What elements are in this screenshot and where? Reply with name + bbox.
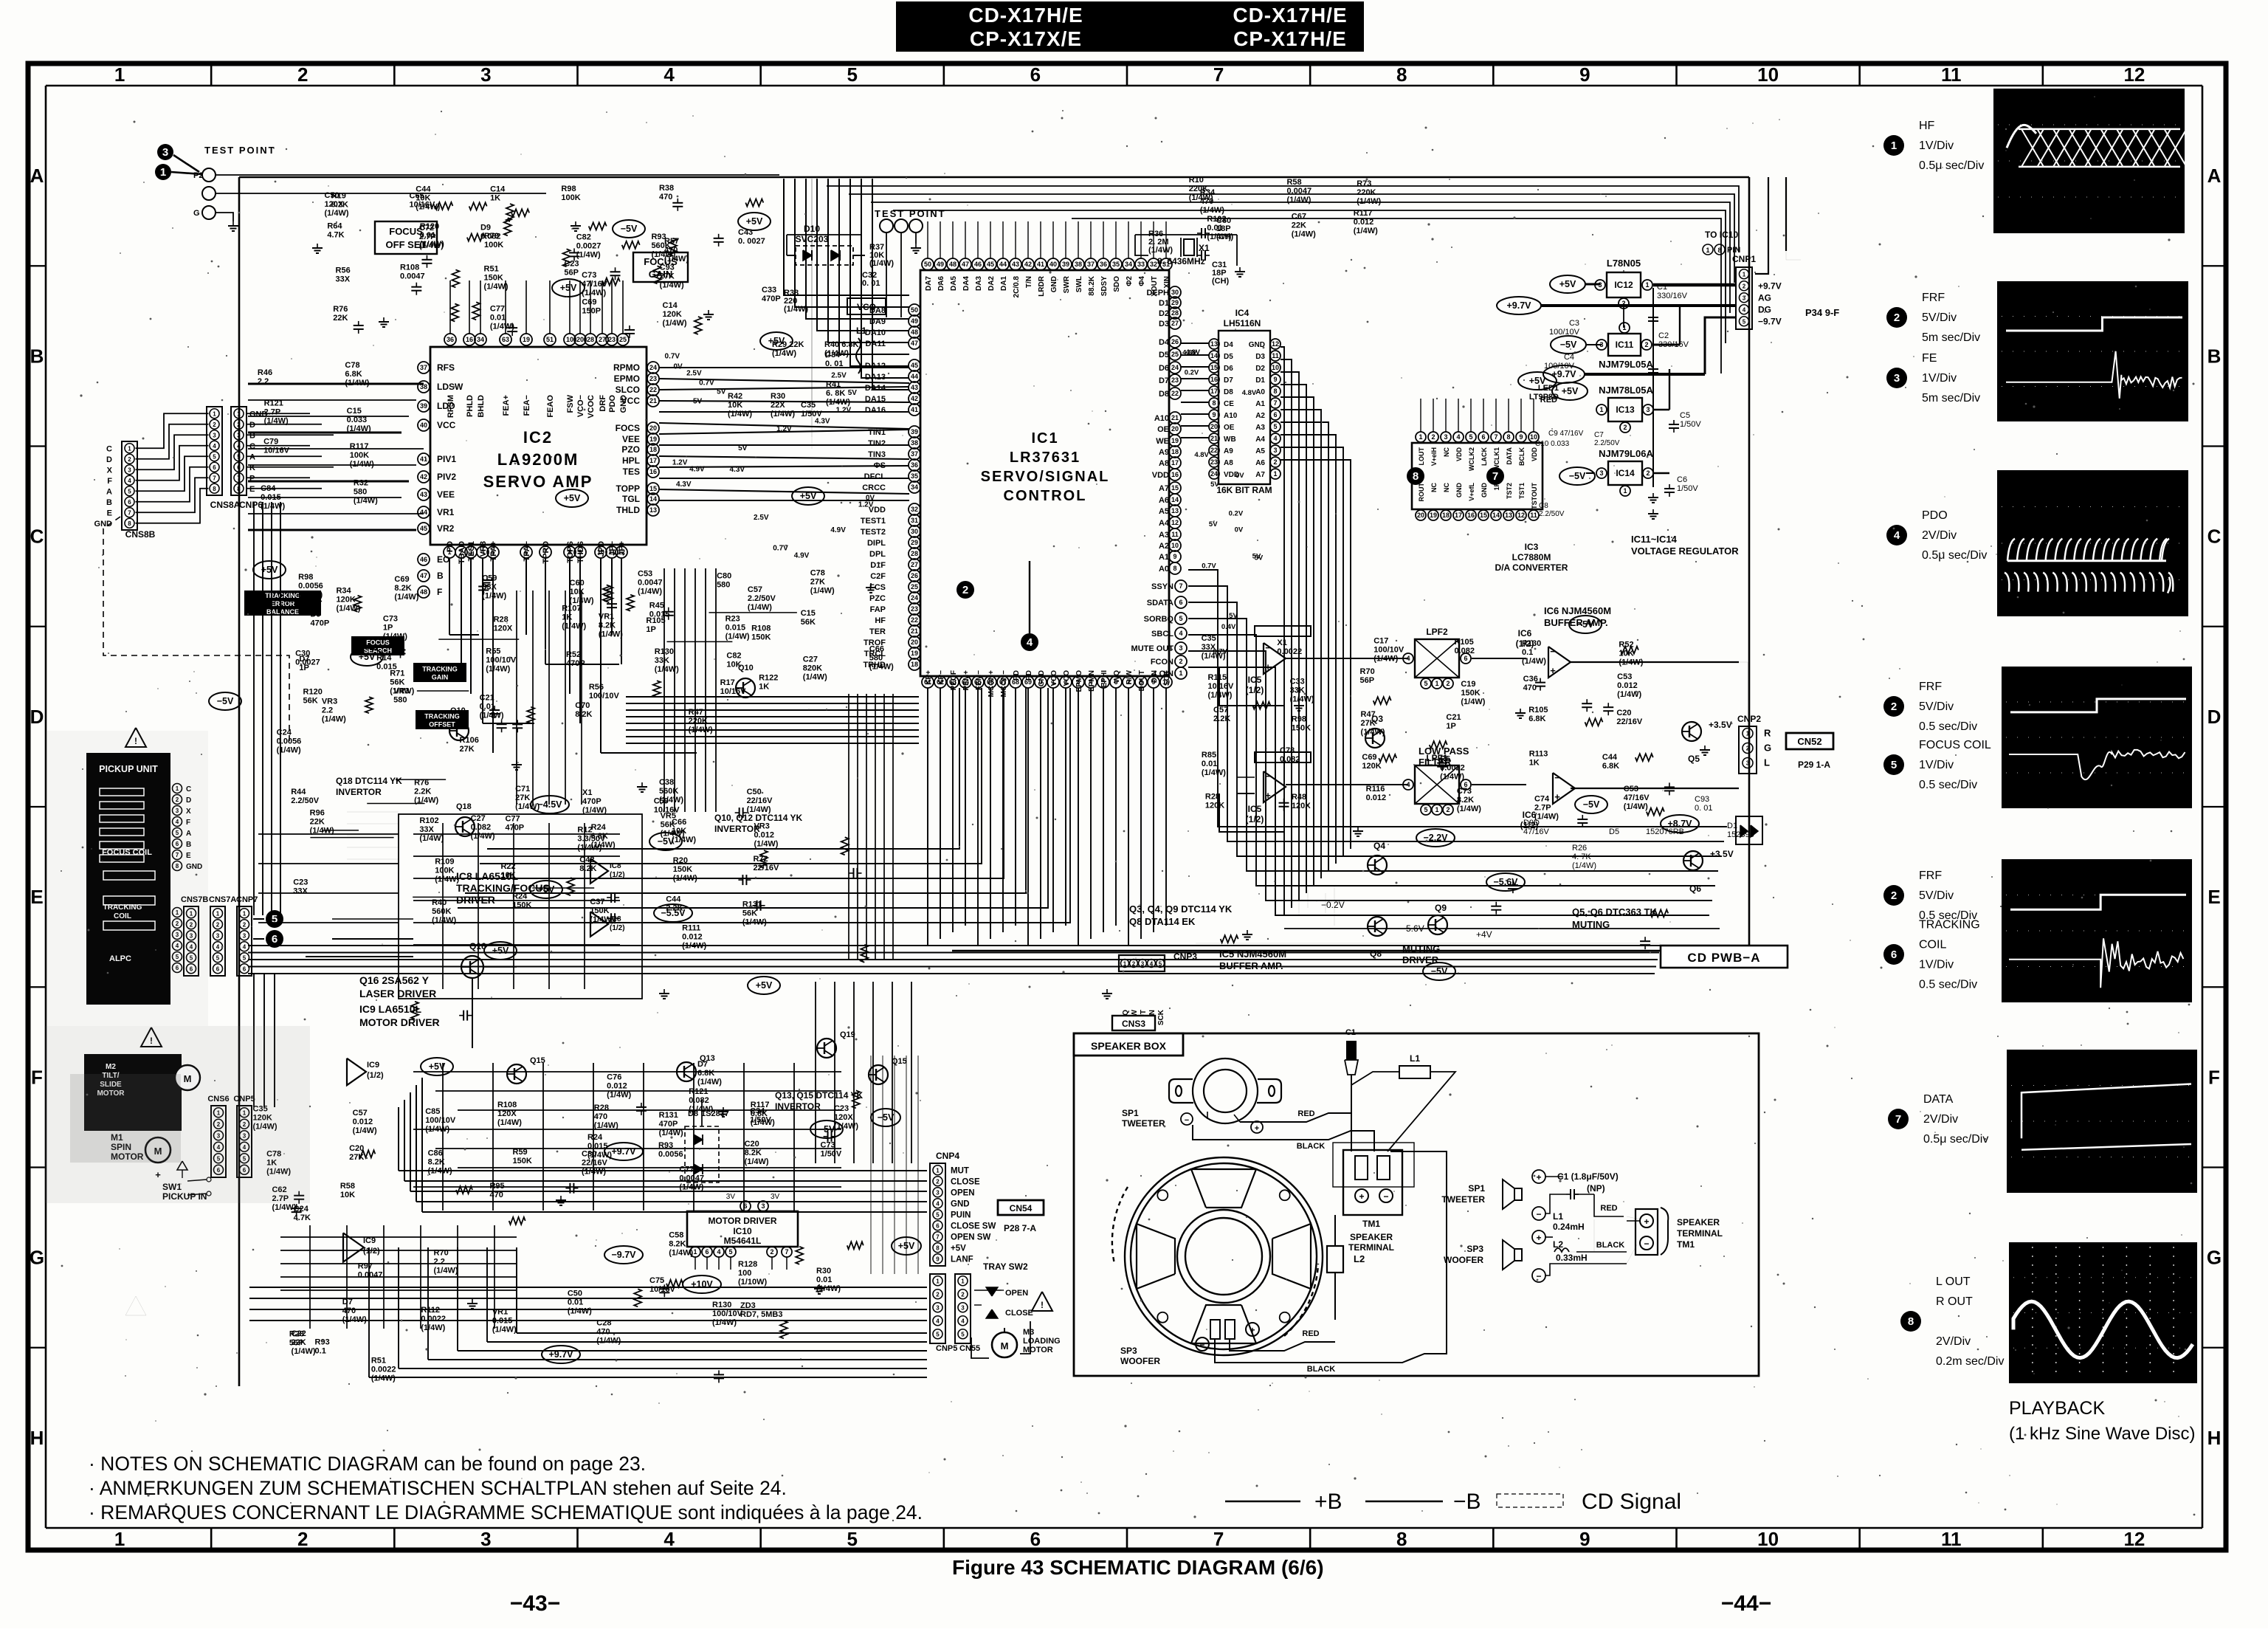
svg-text:33: 33 bbox=[1137, 261, 1145, 268]
svg-text:IC4: IC4 bbox=[1235, 308, 1250, 318]
svg-text:0.2m sec/Div: 0.2m sec/Div bbox=[1936, 1355, 2004, 1368]
svg-text:3: 3 bbox=[162, 146, 168, 159]
svg-text:1: 1 bbox=[237, 410, 241, 417]
svg-text:+5V: +5V bbox=[746, 216, 763, 227]
svg-text:NJM79L06A: NJM79L06A bbox=[1599, 448, 1653, 459]
svg-text:−5V: −5V bbox=[1583, 799, 1600, 810]
svg-text:+5V: +5V bbox=[800, 491, 817, 501]
svg-text:44: 44 bbox=[911, 373, 918, 380]
svg-text:21: 21 bbox=[649, 397, 657, 404]
svg-text:100K: 100K bbox=[435, 867, 454, 875]
svg-text:IC2: IC2 bbox=[523, 428, 553, 447]
svg-text:9: 9 bbox=[1273, 376, 1277, 383]
svg-text:0.0027: 0.0027 bbox=[576, 241, 602, 250]
svg-text:4: 4 bbox=[1743, 306, 1746, 313]
svg-text:R56: R56 bbox=[336, 266, 351, 275]
svg-text:24: 24 bbox=[1171, 364, 1179, 371]
svg-text:CONTROL: CONTROL bbox=[1004, 488, 1087, 504]
svg-text:(1/4W): (1/4W) bbox=[353, 1126, 377, 1135]
svg-text:Q16 2SA562 Y: Q16 2SA562 Y bbox=[359, 974, 430, 986]
svg-text:CNS8A: CNS8A bbox=[210, 500, 241, 510]
svg-text:VR1: VR1 bbox=[492, 1307, 508, 1316]
svg-text:1K: 1K bbox=[562, 613, 572, 622]
svg-text:8: 8 bbox=[1396, 1528, 1407, 1550]
svg-text:BLACK: BLACK bbox=[1596, 1241, 1625, 1250]
svg-text:2: 2 bbox=[297, 63, 308, 86]
svg-text:+3.5V: +3.5V bbox=[1709, 720, 1732, 730]
svg-text:120K: 120K bbox=[336, 595, 355, 604]
svg-text:C21: C21 bbox=[480, 694, 494, 703]
svg-text:8.2K: 8.2K bbox=[394, 584, 411, 593]
svg-text:F: F bbox=[107, 477, 112, 486]
svg-text:(1/4W): (1/4W) bbox=[1202, 768, 1226, 777]
svg-text:120X: 120X bbox=[494, 624, 513, 633]
svg-text:5V: 5V bbox=[1210, 481, 1219, 489]
svg-text:22/16V: 22/16V bbox=[753, 864, 779, 872]
svg-text:0. 0027: 0. 0027 bbox=[738, 237, 765, 246]
svg-text:C37: C37 bbox=[590, 898, 604, 906]
svg-text:19: 19 bbox=[649, 435, 657, 443]
svg-text:C71: C71 bbox=[515, 785, 530, 793]
svg-text:GND: GND bbox=[1481, 483, 1488, 498]
svg-text:5V: 5V bbox=[1229, 612, 1238, 620]
svg-text:FOCUS: FOCUS bbox=[389, 226, 423, 237]
svg-text:RD7, 5MB3: RD7, 5MB3 bbox=[740, 1310, 782, 1319]
svg-text:5: 5 bbox=[216, 954, 220, 961]
svg-text:32: 32 bbox=[1150, 261, 1157, 268]
svg-text:470: 470 bbox=[489, 1191, 503, 1199]
svg-text:R52: R52 bbox=[566, 650, 581, 659]
svg-text:1/50V: 1/50V bbox=[1680, 420, 1701, 429]
svg-text:3: 3 bbox=[1894, 372, 1900, 385]
svg-text:470: 470 bbox=[1200, 197, 1213, 206]
svg-text:1: 1 bbox=[936, 1167, 940, 1174]
svg-text:C27: C27 bbox=[803, 655, 818, 664]
svg-text:C19: C19 bbox=[1461, 680, 1475, 689]
svg-text:43: 43 bbox=[911, 384, 918, 391]
svg-text:NC: NC bbox=[1430, 483, 1438, 492]
svg-text:(1/4W): (1/4W) bbox=[607, 1090, 631, 1099]
svg-text:· REMARQUES CONCERNANT LE DIAG: · REMARQUES CONCERNANT LE DIAGRAMME SCHE… bbox=[89, 1501, 923, 1523]
svg-text:R117: R117 bbox=[350, 442, 369, 451]
svg-text:2V/Div: 2V/Div bbox=[1923, 1113, 1958, 1126]
svg-text:C: C bbox=[106, 444, 112, 453]
svg-text:6: 6 bbox=[128, 499, 131, 506]
svg-text:0.0047: 0.0047 bbox=[400, 272, 425, 280]
svg-text:45: 45 bbox=[987, 261, 994, 268]
svg-text:24: 24 bbox=[1210, 470, 1218, 478]
svg-text:C77: C77 bbox=[679, 1165, 694, 1174]
svg-text:C20: C20 bbox=[1616, 709, 1631, 717]
svg-text:13: 13 bbox=[1505, 512, 1512, 519]
svg-text:1: 1 bbox=[961, 1278, 965, 1284]
svg-text:R23: R23 bbox=[725, 615, 740, 624]
svg-text:C20: C20 bbox=[349, 1144, 364, 1153]
svg-text:C17: C17 bbox=[1373, 636, 1388, 645]
svg-text:48: 48 bbox=[949, 261, 957, 268]
svg-text:R32: R32 bbox=[354, 478, 368, 487]
svg-text:(1/4W): (1/4W) bbox=[1617, 690, 1641, 699]
svg-text:(1/4W): (1/4W) bbox=[810, 586, 835, 595]
svg-text:5: 5 bbox=[243, 954, 247, 961]
svg-text:TWEETER: TWEETER bbox=[1441, 1194, 1485, 1205]
svg-text:0.012: 0.012 bbox=[1354, 218, 1374, 227]
svg-text:6: 6 bbox=[213, 464, 216, 471]
svg-text:+9.7V: +9.7V bbox=[611, 1146, 636, 1157]
svg-text:1.2V: 1.2V bbox=[836, 406, 852, 414]
svg-text:TRAY SW2: TRAY SW2 bbox=[983, 1261, 1028, 1272]
svg-text:A1: A1 bbox=[1159, 553, 1169, 562]
svg-text:(1/4W): (1/4W) bbox=[425, 1125, 449, 1134]
svg-text:RED: RED bbox=[1297, 1109, 1314, 1118]
svg-text:CD-X17H/E: CD-X17H/E bbox=[968, 4, 1083, 27]
svg-text:(1/4W): (1/4W) bbox=[659, 1129, 683, 1137]
svg-text:−5V: −5V bbox=[1569, 471, 1586, 481]
svg-text:VCO: VCO bbox=[1050, 670, 1058, 686]
svg-text:C67: C67 bbox=[1292, 212, 1306, 221]
svg-text:31: 31 bbox=[911, 517, 918, 524]
svg-text:100/10V: 100/10V bbox=[712, 1309, 743, 1318]
svg-text:SWR: SWR bbox=[1063, 275, 1071, 293]
svg-text:−: − bbox=[1550, 646, 1556, 657]
svg-text:1P: 1P bbox=[646, 625, 655, 634]
svg-text:R121: R121 bbox=[689, 1087, 708, 1096]
svg-text:19: 19 bbox=[523, 336, 530, 343]
svg-text:(1/4W): (1/4W) bbox=[480, 712, 504, 720]
svg-text:4: 4 bbox=[1273, 435, 1277, 442]
svg-text:SLCO: SLCO bbox=[616, 385, 640, 395]
svg-text:470P: 470P bbox=[311, 619, 330, 628]
svg-text:DA5: DA5 bbox=[950, 276, 958, 291]
svg-text:150K: 150K bbox=[1292, 723, 1311, 732]
svg-text:(1/4W): (1/4W) bbox=[742, 918, 767, 927]
svg-text:INVERTOR: INVERTOR bbox=[336, 787, 382, 797]
svg-text:56P: 56P bbox=[564, 268, 579, 277]
svg-text:100K: 100K bbox=[484, 241, 503, 249]
svg-text:D/A CONVERTER: D/A CONVERTER bbox=[1495, 562, 1568, 573]
svg-text:LED1: LED1 bbox=[1538, 384, 1559, 393]
svg-text:D: D bbox=[2207, 706, 2222, 728]
svg-text:470: 470 bbox=[1523, 684, 1537, 692]
svg-text:47: 47 bbox=[911, 340, 918, 347]
svg-text:2.7P: 2.7P bbox=[1534, 803, 1551, 812]
svg-text:+: + bbox=[1255, 1124, 1259, 1133]
svg-text:9: 9 bbox=[1519, 433, 1523, 441]
svg-text:Φ2: Φ2 bbox=[1126, 276, 1134, 286]
svg-text:4.9V: 4.9V bbox=[830, 526, 846, 534]
svg-text:8: 8 bbox=[213, 486, 216, 492]
svg-text:33X: 33X bbox=[293, 887, 308, 896]
svg-text:C76: C76 bbox=[607, 1072, 621, 1081]
svg-text:20: 20 bbox=[649, 424, 657, 432]
svg-text:SSYN: SSYN bbox=[1151, 582, 1173, 591]
svg-text:D8: D8 bbox=[1224, 388, 1233, 396]
svg-text:3: 3 bbox=[961, 1304, 965, 1311]
svg-text:18: 18 bbox=[911, 661, 918, 668]
svg-text:3.3/50V: 3.3/50V bbox=[577, 834, 606, 843]
svg-text:1K: 1K bbox=[1529, 758, 1540, 767]
svg-text:CD Signal: CD Signal bbox=[1582, 1490, 1681, 1514]
svg-text:(1/4W): (1/4W) bbox=[383, 633, 407, 641]
svg-text:(1/4W): (1/4W) bbox=[1624, 802, 1648, 811]
svg-text:7: 7 bbox=[213, 475, 216, 481]
svg-text:IC11: IC11 bbox=[1616, 340, 1634, 350]
svg-text:R98: R98 bbox=[298, 573, 313, 582]
svg-text:GND: GND bbox=[1050, 276, 1058, 292]
svg-text:−5.6V: −5.6V bbox=[1493, 877, 1518, 887]
svg-text:5m sec/Div: 5m sec/Div bbox=[1922, 331, 1980, 344]
svg-text:SVC203: SVC203 bbox=[796, 234, 829, 244]
svg-text:580: 580 bbox=[869, 654, 883, 663]
svg-text:18: 18 bbox=[649, 446, 657, 453]
svg-text:27: 27 bbox=[911, 561, 918, 568]
svg-text:VEE: VEE bbox=[622, 434, 640, 444]
svg-text:3: 3 bbox=[480, 1528, 491, 1550]
svg-text:4: 4 bbox=[128, 478, 131, 484]
svg-text:+5V: +5V bbox=[756, 980, 773, 991]
svg-text:(1/4W): (1/4W) bbox=[515, 802, 540, 811]
svg-text:LOIN: LOIN bbox=[1154, 669, 1173, 678]
svg-text:SPEAKER: SPEAKER bbox=[1677, 1217, 1720, 1228]
svg-text:· ANMERKUNGEN ZUM SCHEMATISCHE: · ANMERKUNGEN ZUM SCHEMATISCHEN SCHALTPL… bbox=[89, 1477, 787, 1499]
svg-text:16: 16 bbox=[1171, 471, 1179, 478]
svg-text:CNP6: CNP6 bbox=[239, 500, 263, 510]
svg-text:· NOTES ON SCHEMATIC DIAGRAM c: · NOTES ON SCHEMATIC DIAGRAM can be foun… bbox=[89, 1453, 646, 1475]
svg-text:CNP2: CNP2 bbox=[1737, 714, 1761, 724]
svg-text:R47: R47 bbox=[689, 708, 703, 717]
svg-text:4: 4 bbox=[663, 1528, 675, 1550]
svg-text:C: C bbox=[249, 442, 255, 451]
svg-text:5: 5 bbox=[728, 1248, 732, 1256]
svg-text:11: 11 bbox=[1171, 531, 1179, 538]
svg-text:560K: 560K bbox=[659, 787, 678, 796]
svg-text:17: 17 bbox=[1455, 512, 1462, 519]
svg-text:34: 34 bbox=[911, 483, 918, 491]
svg-text:C23: C23 bbox=[293, 878, 308, 887]
svg-text:C73: C73 bbox=[383, 615, 398, 624]
svg-text:R28: R28 bbox=[594, 1104, 609, 1112]
svg-text:PZO: PZO bbox=[621, 444, 640, 455]
svg-text:C60: C60 bbox=[570, 579, 585, 588]
svg-text:18: 18 bbox=[1442, 512, 1450, 519]
svg-text:(1/4W): (1/4W) bbox=[869, 663, 894, 672]
svg-text:DPL: DPL bbox=[869, 550, 886, 559]
svg-text:0.0056: 0.0056 bbox=[298, 582, 323, 591]
svg-text:100/10V: 100/10V bbox=[1544, 362, 1575, 371]
svg-text:7: 7 bbox=[1273, 399, 1277, 407]
svg-text:(1/4W): (1/4W) bbox=[576, 250, 601, 259]
svg-text:7: 7 bbox=[237, 475, 241, 481]
svg-text:2: 2 bbox=[936, 1178, 940, 1185]
svg-text:(1/2): (1/2) bbox=[363, 1247, 380, 1256]
svg-text:R117: R117 bbox=[751, 1101, 770, 1109]
svg-text:42: 42 bbox=[420, 473, 427, 481]
svg-text:L78N05: L78N05 bbox=[1607, 258, 1641, 269]
svg-text:R122: R122 bbox=[759, 674, 778, 683]
svg-text:47/16V: 47/16V bbox=[1523, 827, 1550, 836]
svg-text:R97: R97 bbox=[358, 1261, 373, 1270]
svg-text:2.2K: 2.2K bbox=[1213, 715, 1230, 723]
svg-text:DIPL: DIPL bbox=[867, 539, 886, 548]
svg-text:21: 21 bbox=[1171, 414, 1179, 421]
svg-text:4: 4 bbox=[1179, 630, 1182, 637]
svg-text:(1/4W): (1/4W) bbox=[728, 410, 752, 419]
svg-text:C44: C44 bbox=[1602, 753, 1618, 762]
svg-text:16: 16 bbox=[649, 468, 657, 475]
svg-text:8.2K: 8.2K bbox=[1457, 796, 1474, 805]
svg-text:CN54: CN54 bbox=[1010, 1203, 1033, 1213]
svg-text:−9.7V: −9.7V bbox=[611, 1250, 636, 1260]
svg-text:LH5116N: LH5116N bbox=[1224, 318, 1261, 328]
svg-text:6: 6 bbox=[1273, 411, 1277, 419]
svg-text:TEST2: TEST2 bbox=[861, 528, 886, 537]
svg-text:2: 2 bbox=[1891, 700, 1897, 713]
svg-text:D4: D4 bbox=[1159, 338, 1170, 347]
svg-text:SCK: SCK bbox=[1157, 1009, 1165, 1025]
svg-text:OE: OE bbox=[1157, 425, 1169, 434]
svg-text:4.3V: 4.3V bbox=[815, 417, 830, 425]
svg-text:6. 8K: 6. 8K bbox=[826, 389, 845, 398]
svg-text:(1/4W): (1/4W) bbox=[682, 942, 706, 951]
svg-text:3: 3 bbox=[1444, 433, 1447, 441]
svg-text:23: 23 bbox=[608, 336, 616, 343]
svg-text:SORBQ: SORBQ bbox=[1144, 615, 1174, 624]
svg-text:100: 100 bbox=[738, 1269, 751, 1278]
svg-text:C93: C93 bbox=[1695, 795, 1709, 804]
svg-text:(1/4W): (1/4W) bbox=[568, 1307, 592, 1316]
svg-text:Q18 DTC114 YK: Q18 DTC114 YK bbox=[336, 776, 402, 786]
svg-text:+: + bbox=[1536, 1172, 1541, 1182]
svg-text:5V: 5V bbox=[1209, 520, 1218, 528]
svg-text:14: 14 bbox=[1171, 496, 1179, 503]
svg-text:0.5μ sec/Div: 0.5μ sec/Div bbox=[1923, 1133, 1988, 1146]
svg-text:A0: A0 bbox=[1159, 565, 1169, 574]
svg-text:VCO−: VCO− bbox=[576, 395, 585, 417]
svg-text:580: 580 bbox=[717, 580, 730, 589]
svg-text:R73: R73 bbox=[1357, 179, 1371, 188]
svg-text:37: 37 bbox=[420, 364, 427, 371]
svg-text:22K: 22K bbox=[333, 314, 348, 323]
svg-text:6: 6 bbox=[216, 965, 220, 972]
svg-text:28: 28 bbox=[1171, 309, 1179, 317]
svg-text:5: 5 bbox=[213, 453, 216, 460]
svg-text:28: 28 bbox=[587, 336, 594, 343]
svg-text:10K: 10K bbox=[570, 588, 585, 596]
svg-text:4: 4 bbox=[213, 443, 216, 450]
svg-text:5: 5 bbox=[1179, 615, 1182, 622]
svg-text:22: 22 bbox=[649, 386, 657, 393]
svg-text:(1/4W): (1/4W) bbox=[390, 686, 414, 695]
svg-text:R28: R28 bbox=[1205, 792, 1220, 801]
svg-text:R34: R34 bbox=[336, 586, 351, 595]
svg-text:13: 13 bbox=[649, 506, 657, 514]
svg-text:R116: R116 bbox=[1366, 785, 1385, 793]
svg-text:(1/4W): (1/4W) bbox=[689, 726, 713, 734]
svg-text:9: 9 bbox=[1579, 1528, 1590, 1550]
svg-text:Q15: Q15 bbox=[892, 1057, 907, 1066]
svg-text:16K BIT RAM: 16K BIT RAM bbox=[1216, 485, 1272, 495]
svg-text:19: 19 bbox=[1171, 437, 1179, 444]
svg-text:8.2K: 8.2K bbox=[599, 621, 616, 630]
svg-text:63: 63 bbox=[502, 336, 509, 343]
svg-text:TIN2: TIN2 bbox=[868, 439, 886, 448]
svg-text:−: − bbox=[1383, 1191, 1388, 1202]
svg-text:C69: C69 bbox=[1362, 753, 1376, 762]
svg-text:FAP: FAP bbox=[870, 605, 886, 614]
svg-text:Q9: Q9 bbox=[1435, 903, 1447, 913]
svg-text:Q5: Q5 bbox=[1688, 754, 1700, 764]
svg-text:C20: C20 bbox=[745, 1140, 759, 1149]
svg-text:EPMO: EPMO bbox=[1075, 670, 1083, 692]
svg-text:E: E bbox=[107, 509, 112, 517]
svg-text:SDSY: SDSY bbox=[1100, 276, 1109, 297]
svg-text:R107: R107 bbox=[562, 605, 581, 613]
svg-text:100/10V: 100/10V bbox=[425, 1116, 456, 1125]
svg-text:C69: C69 bbox=[582, 298, 596, 307]
svg-text:DA6: DA6 bbox=[937, 276, 945, 291]
svg-text:1: 1 bbox=[213, 410, 216, 417]
svg-text:2: 2 bbox=[1446, 680, 1450, 687]
svg-text:0. 01: 0. 01 bbox=[1695, 804, 1712, 813]
svg-text:D8: D8 bbox=[1159, 390, 1169, 399]
svg-text:0.012: 0.012 bbox=[1617, 681, 1638, 690]
svg-text:CD PWB−A: CD PWB−A bbox=[1687, 951, 1760, 965]
svg-text:D2: D2 bbox=[1159, 309, 1169, 318]
svg-text:5V: 5V bbox=[717, 388, 726, 396]
svg-text:220K: 220K bbox=[689, 717, 708, 726]
svg-text:GND: GND bbox=[951, 1199, 970, 1208]
svg-text:+5V: +5V bbox=[1562, 386, 1579, 396]
svg-text:2: 2 bbox=[1431, 433, 1435, 441]
svg-text:(1/4W): (1/4W) bbox=[784, 305, 808, 314]
svg-text:22K: 22K bbox=[1292, 221, 1306, 230]
svg-text:LDSW: LDSW bbox=[437, 382, 463, 392]
svg-text:C2: C2 bbox=[1658, 331, 1669, 340]
svg-text:CNP5: CNP5 bbox=[936, 1344, 957, 1353]
svg-text:P29 1-A: P29 1-A bbox=[1798, 760, 1830, 770]
svg-text:G: G bbox=[1764, 743, 1771, 754]
svg-text:C57: C57 bbox=[1213, 706, 1228, 715]
svg-text:470: 470 bbox=[596, 1328, 610, 1337]
svg-text:TM1: TM1 bbox=[1362, 1219, 1380, 1229]
svg-text:R115: R115 bbox=[1207, 673, 1227, 682]
svg-text:SPEAKER: SPEAKER bbox=[1350, 1232, 1393, 1242]
svg-text:(1/4W): (1/4W) bbox=[582, 1168, 606, 1177]
svg-text:(1/4W): (1/4W) bbox=[264, 417, 289, 426]
svg-text:0.0047: 0.0047 bbox=[679, 1174, 704, 1182]
svg-text:2: 2 bbox=[1446, 806, 1450, 813]
svg-text:6.8K: 6.8K bbox=[1528, 715, 1545, 723]
svg-text:BCLK: BCLK bbox=[1518, 447, 1526, 466]
svg-text:VCO: VCO bbox=[1063, 670, 1071, 686]
svg-text:1.2V: 1.2V bbox=[858, 501, 874, 509]
svg-text:L1: L1 bbox=[1410, 1053, 1420, 1064]
svg-text:DA3: DA3 bbox=[975, 276, 983, 291]
svg-text:1K: 1K bbox=[759, 683, 769, 692]
svg-text:470P: 470P bbox=[566, 659, 585, 668]
svg-text:150K: 150K bbox=[484, 274, 503, 283]
svg-text:+5V: +5V bbox=[538, 884, 555, 895]
svg-text:2: 2 bbox=[1891, 889, 1897, 902]
svg-text:JPD: JPD bbox=[597, 541, 606, 557]
svg-text:CN55: CN55 bbox=[959, 1344, 980, 1353]
svg-text:(1/4W): (1/4W) bbox=[660, 281, 684, 290]
svg-text:1: 1 bbox=[1419, 433, 1422, 441]
svg-text:H: H bbox=[30, 1427, 44, 1449]
svg-text:−5V: −5V bbox=[1431, 966, 1448, 977]
svg-text:Q18: Q18 bbox=[456, 802, 472, 811]
svg-text:+5V: +5V bbox=[1559, 279, 1576, 289]
